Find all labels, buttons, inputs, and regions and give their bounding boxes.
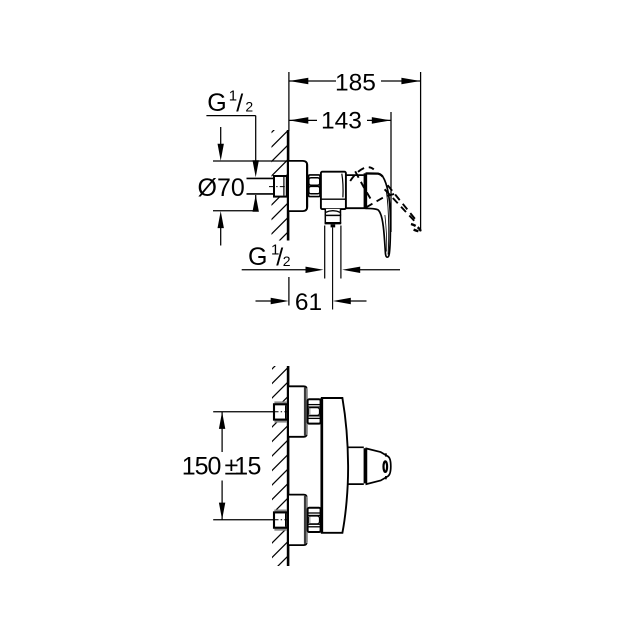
- svg-text:2: 2: [245, 99, 253, 115]
- upper union nut (plan): [308, 399, 321, 423]
- label G 1/2 (top): [206, 87, 259, 211]
- mixer body (plan view): [322, 398, 348, 533]
- shower hose lines: [325, 226, 341, 279]
- handle joint line (side view): [364, 173, 367, 208]
- lever end ellipse: [384, 461, 388, 472]
- white masks for nuts over hatching: [272, 402, 289, 421]
- cartridge cap arc: [342, 174, 343, 198]
- lower escutcheon (plan): [289, 495, 308, 545]
- svg-text:2: 2: [283, 253, 291, 269]
- dimension 185: [289, 69, 420, 231]
- svg-text:150: 150: [182, 453, 221, 481]
- lever handle (side view): [366, 173, 390, 257]
- union nut (side view): [309, 175, 320, 197]
- svg-text:61: 61: [295, 289, 322, 316]
- hose centre line / 61 extension: [332, 228, 334, 310]
- dimension 150 +-15: [182, 412, 274, 520]
- inlet nut behind wall (top view): [269, 176, 288, 197]
- knob joint (plan): [364, 448, 367, 483]
- wall face extension line (top): [288, 72, 290, 131]
- inlet pipe behind wall (top view): [247, 178, 275, 194]
- svg-text:185: 185: [335, 69, 376, 96]
- cap barrel (side view): [346, 175, 366, 208]
- upper escutcheon (plan): [289, 386, 308, 437]
- white mask for inlet pipe over hatching: [245, 177, 288, 197]
- wall hatching (top view): [259, 110, 294, 261]
- wall flange / escutcheon (side view): [289, 161, 307, 211]
- dimension 61: [256, 277, 367, 316]
- svg-text:G: G: [207, 89, 226, 117]
- hose nut: [325, 215, 340, 222]
- label G 1/2 (bottom): [242, 241, 400, 273]
- dimension 143: [289, 108, 391, 232]
- cartridge neck (plan): [347, 447, 364, 484]
- svg-text:G: G: [248, 243, 267, 271]
- svg-text:Ø70: Ø70: [198, 174, 245, 202]
- dimension O70: [198, 127, 288, 246]
- mixer body (side view): [321, 172, 346, 209]
- hose cone: [331, 224, 336, 227]
- wall line (lower view): [287, 366, 290, 566]
- lower union nut (plan): [308, 508, 321, 532]
- lower inlet nut (plan): [274, 510, 289, 531]
- lever knob end-on (plan): [366, 449, 390, 485]
- dashed handle tip hook: [411, 224, 421, 232]
- centre tick marks on knob: [385, 453, 387, 456]
- handle shading line: [386, 190, 389, 255]
- upper inlet nut (plan): [274, 401, 289, 422]
- wall line (top view): [287, 130, 290, 241]
- svg-text:15: 15: [234, 453, 261, 481]
- svg-text:143: 143: [321, 108, 362, 135]
- outlet stub below body: [325, 209, 340, 216]
- wall hatching (lower view): [260, 346, 295, 584]
- svg-text:/: /: [236, 89, 243, 117]
- dashed handle raised position: [350, 167, 417, 222]
